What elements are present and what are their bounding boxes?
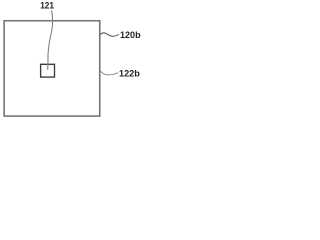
svg-text:122b: 122b [119, 68, 140, 79]
svg-text:121: 121 [40, 1, 54, 12]
svg-text:120b: 120b [120, 30, 141, 41]
